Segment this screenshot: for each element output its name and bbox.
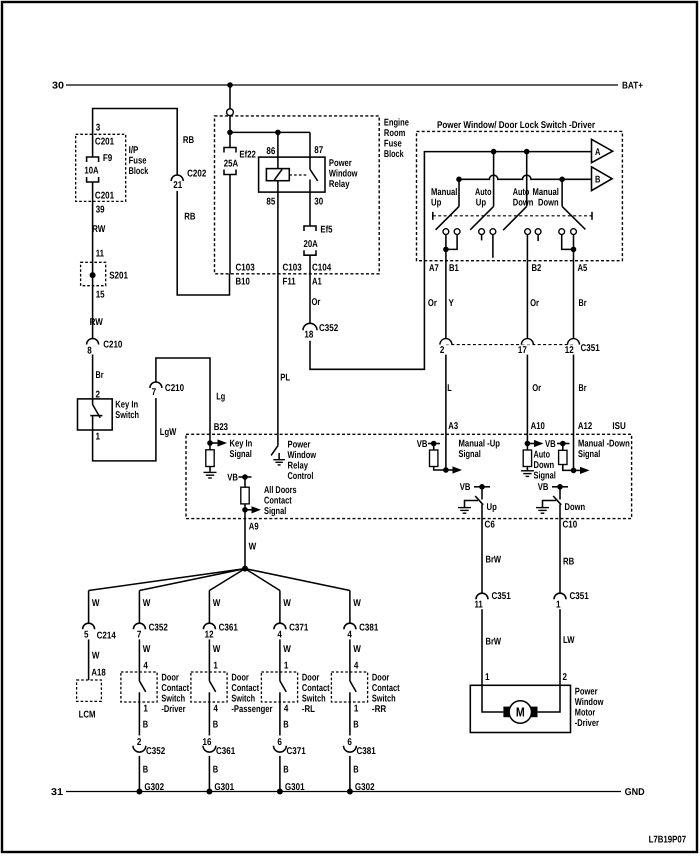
svg-text:2: 2 bbox=[137, 737, 142, 748]
svg-text:Switch: Switch bbox=[115, 410, 139, 421]
svg-text:B10: B10 bbox=[236, 277, 251, 288]
G_BOTBUS bbox=[51, 787, 645, 798]
svg-text:Y: Y bbox=[449, 298, 455, 309]
svg-text:Block: Block bbox=[129, 166, 149, 177]
manual-down signal A12 bbox=[573, 434, 575, 470]
signal arrow bbox=[218, 439, 228, 446]
wire B10 jog to C202 to IP fuse block bbox=[177, 191, 229, 295]
svg-text:Relay: Relay bbox=[288, 461, 309, 472]
svg-text:W: W bbox=[143, 598, 151, 609]
I/P fuse block box bbox=[76, 134, 126, 201]
svg-text:C210: C210 bbox=[103, 340, 123, 351]
node 31 bus bbox=[66, 791, 621, 793]
door contact switch -Driver branch bbox=[121, 591, 190, 795]
svg-text:ISU: ISU bbox=[612, 421, 625, 432]
svg-text:C352: C352 bbox=[149, 623, 169, 634]
svg-text:21: 21 bbox=[173, 180, 182, 191]
svg-text:Br: Br bbox=[96, 370, 104, 381]
svg-text:A3: A3 bbox=[448, 421, 458, 432]
svg-text:1: 1 bbox=[354, 704, 359, 715]
svg-text:W: W bbox=[353, 598, 361, 609]
svg-text:B: B bbox=[353, 765, 358, 776]
svg-text:BAT+: BAT+ bbox=[622, 81, 643, 92]
svg-text:Door: Door bbox=[231, 672, 249, 683]
wire W pin 4 bbox=[349, 639, 351, 681]
svg-text:M: M bbox=[516, 705, 525, 720]
svg-text:LCM: LCM bbox=[79, 710, 96, 721]
G_MIDWIRES bbox=[278, 181, 600, 435]
engine room fuse block box bbox=[215, 116, 380, 274]
svg-text:A1: A1 bbox=[312, 277, 322, 288]
svg-text:B: B bbox=[283, 765, 288, 776]
svg-text:Signal: Signal bbox=[534, 471, 557, 482]
svg-text:A10: A10 bbox=[531, 421, 546, 432]
wire A1 bbox=[309, 255, 311, 274]
ground bbox=[536, 508, 549, 514]
svg-text:B: B bbox=[213, 765, 218, 776]
wire Or to A10 bbox=[526, 355, 528, 435]
svg-text:Up: Up bbox=[431, 197, 441, 208]
G_ENGINE bbox=[215, 116, 410, 288]
svg-text:Fuse: Fuse bbox=[129, 156, 147, 167]
connector C351 pin 12 bbox=[568, 339, 580, 345]
svg-text:Power: Power bbox=[329, 158, 352, 169]
wire W bbox=[138, 591, 140, 624]
G_ISU bbox=[186, 421, 632, 519]
wire B to ground G301 bbox=[208, 756, 210, 792]
svg-text:39: 39 bbox=[96, 205, 105, 216]
branch LCM bbox=[88, 591, 90, 624]
svg-text:Switch: Switch bbox=[372, 693, 396, 704]
wire W bbox=[208, 591, 210, 624]
wire L to A3 bbox=[445, 355, 447, 435]
svg-text:6: 6 bbox=[347, 737, 352, 748]
svg-text:C202: C202 bbox=[187, 169, 207, 180]
svg-text:Br: Br bbox=[579, 298, 587, 309]
junction on bus 31 bbox=[277, 789, 283, 795]
contacts auto up bbox=[479, 229, 485, 235]
svg-text:Power: Power bbox=[575, 686, 598, 697]
svg-text:1: 1 bbox=[284, 661, 289, 672]
svg-text:C103: C103 bbox=[283, 263, 303, 274]
svg-text:C214: C214 bbox=[97, 631, 117, 642]
svg-text:Signal: Signal bbox=[578, 449, 601, 460]
svg-text:Signal: Signal bbox=[230, 449, 253, 460]
svg-text:Contact: Contact bbox=[372, 683, 400, 694]
svg-text:RB: RB bbox=[184, 212, 195, 223]
svg-text:C381: C381 bbox=[357, 746, 377, 757]
wire W bbox=[349, 591, 351, 624]
svg-text:Door: Door bbox=[302, 672, 320, 683]
svg-text:16: 16 bbox=[203, 737, 212, 748]
svg-text:Power Window/ Door Lock Switch: Power Window/ Door Lock Switch -Driver bbox=[437, 120, 595, 131]
svg-text:W: W bbox=[92, 598, 100, 609]
fuse Ef5 20A bbox=[304, 226, 316, 231]
manual-up signal A3 bbox=[445, 434, 447, 470]
fuse Ef22 25A bbox=[229, 132, 231, 147]
svg-text:25A: 25A bbox=[224, 159, 238, 170]
svg-text:VB: VB bbox=[227, 472, 238, 483]
key in signal input bbox=[209, 434, 211, 450]
wire B to ground G302 bbox=[349, 756, 351, 792]
svg-text:7: 7 bbox=[152, 387, 157, 398]
svg-text:17: 17 bbox=[518, 345, 527, 356]
svg-text:Or: Or bbox=[312, 297, 321, 308]
svg-text:Contact: Contact bbox=[302, 683, 330, 694]
wire Br bbox=[92, 355, 94, 399]
svg-text:Lg: Lg bbox=[216, 392, 225, 403]
wire bbox=[229, 116, 231, 133]
svg-text:Contact: Contact bbox=[264, 495, 292, 506]
wire W bbox=[279, 591, 281, 624]
auto down signal A10 bbox=[526, 434, 528, 450]
connector C351 pin 2 bbox=[440, 339, 452, 345]
svg-text:86: 86 bbox=[266, 146, 275, 157]
svg-text:Control: Control bbox=[288, 471, 314, 482]
svg-text:4: 4 bbox=[143, 661, 148, 672]
svg-text:Motor: Motor bbox=[575, 707, 596, 718]
svg-text:Switch: Switch bbox=[161, 693, 185, 704]
svg-text:Down: Down bbox=[565, 502, 586, 513]
ground bbox=[458, 508, 471, 514]
svg-text:C361: C361 bbox=[216, 746, 236, 757]
wire line B with hops bbox=[459, 175, 592, 179]
svg-text:Up: Up bbox=[487, 502, 497, 513]
svg-text:A9: A9 bbox=[249, 522, 259, 533]
svg-text:All Doors: All Doors bbox=[264, 485, 297, 496]
wire B to ground G301 bbox=[279, 756, 281, 792]
svg-text:C352: C352 bbox=[319, 323, 339, 334]
ground bbox=[204, 472, 217, 478]
connector C361 pin 12 bbox=[203, 623, 215, 629]
svg-text:W: W bbox=[353, 644, 361, 655]
svg-text:BrW: BrW bbox=[486, 637, 502, 648]
wire to relay 87 bbox=[230, 131, 310, 133]
svg-text:C104: C104 bbox=[312, 263, 332, 274]
svg-text:VB: VB bbox=[417, 439, 428, 450]
wire RW 2 bbox=[92, 262, 94, 338]
svg-text:C10: C10 bbox=[563, 520, 578, 531]
svg-text:85: 85 bbox=[266, 197, 275, 208]
svg-text:Block: Block bbox=[384, 149, 404, 160]
svg-text:Ef5: Ef5 bbox=[320, 225, 333, 236]
svg-text:B1: B1 bbox=[449, 263, 459, 274]
svg-text:Door: Door bbox=[372, 672, 390, 683]
svg-text:Down: Down bbox=[538, 197, 559, 208]
relay coil bbox=[277, 132, 279, 168]
connector C352 pin 7 bbox=[133, 623, 145, 629]
svg-text:C351: C351 bbox=[570, 591, 590, 602]
connector C351 pin 11 bbox=[476, 593, 488, 599]
svg-text:C351: C351 bbox=[581, 343, 601, 354]
wire A9 W bbox=[244, 519, 246, 569]
wire RB above C202 bbox=[93, 109, 178, 176]
contacts manual down bbox=[559, 229, 565, 235]
svg-text:1: 1 bbox=[213, 661, 218, 672]
wire B2 Or bbox=[526, 261, 528, 339]
junction on bus 31 bbox=[347, 789, 353, 795]
svg-text:Window: Window bbox=[575, 697, 604, 708]
svg-text:RW: RW bbox=[90, 317, 104, 328]
ground bbox=[521, 471, 534, 477]
svg-text:-RR: -RR bbox=[372, 704, 386, 715]
svg-text:RW: RW bbox=[92, 224, 106, 235]
svg-text:A7: A7 bbox=[429, 263, 439, 274]
svg-text:VB: VB bbox=[460, 482, 471, 493]
svg-text:W: W bbox=[92, 651, 100, 662]
svg-text:C352: C352 bbox=[146, 746, 166, 757]
connector C202 pin 21 bbox=[171, 175, 183, 181]
svg-text:LW: LW bbox=[563, 635, 575, 646]
wire 30 to Ef5 bbox=[309, 192, 311, 226]
triangle A bbox=[592, 139, 613, 162]
wire A1 Or to C352-18 bbox=[309, 274, 311, 323]
svg-text:Contact: Contact bbox=[231, 683, 259, 694]
svg-text:C6: C6 bbox=[485, 520, 496, 531]
svg-text:W: W bbox=[283, 644, 291, 655]
node 30 bus bbox=[66, 84, 618, 86]
switch manual up bbox=[458, 179, 460, 206]
svg-text:Switch: Switch bbox=[231, 693, 255, 704]
ISU box bbox=[186, 434, 632, 518]
svg-text:11: 11 bbox=[96, 249, 105, 260]
svg-text:Ef22: Ef22 bbox=[239, 150, 256, 161]
motor M1 internals bbox=[482, 685, 503, 712]
G_TOPBUS bbox=[52, 81, 643, 133]
svg-text:30: 30 bbox=[52, 81, 65, 92]
door contact switch box -Passenger bbox=[191, 672, 227, 702]
svg-text:4: 4 bbox=[347, 630, 352, 641]
svg-text:VB: VB bbox=[545, 439, 556, 450]
LCM box bbox=[77, 680, 102, 701]
relay contact blade bbox=[309, 157, 311, 169]
G_MOTOR bbox=[470, 519, 603, 733]
power window motor box bbox=[470, 685, 570, 732]
svg-text:L7B19P07: L7B19P07 bbox=[649, 835, 687, 846]
svg-text:Switch: Switch bbox=[302, 693, 326, 704]
resistor R-a12 bbox=[559, 450, 567, 464]
svg-text:W: W bbox=[143, 644, 151, 655]
wire B1 Y bbox=[445, 261, 447, 339]
svg-text:31: 31 bbox=[51, 787, 64, 798]
svg-text:Door: Door bbox=[161, 672, 179, 683]
door contact switch -Passenger branch bbox=[191, 591, 273, 795]
G_SWITCHBOX bbox=[417, 120, 623, 274]
svg-text:C103: C103 bbox=[236, 263, 256, 274]
svg-text:GND: GND bbox=[625, 787, 645, 798]
wire B to ground G302 bbox=[138, 756, 140, 792]
svg-text:B: B bbox=[353, 720, 358, 731]
svg-text:Key In: Key In bbox=[230, 439, 253, 450]
svg-text:2: 2 bbox=[563, 672, 568, 683]
wire Or to A7 bbox=[310, 261, 424, 370]
door contact switch -RR branch bbox=[331, 591, 400, 795]
svg-text:B: B bbox=[143, 765, 148, 776]
svg-text:C371: C371 bbox=[287, 746, 307, 757]
svg-text:B: B bbox=[213, 720, 218, 731]
power window relay control switch bbox=[277, 434, 279, 445]
svg-text:6: 6 bbox=[277, 737, 282, 748]
svg-text:7: 7 bbox=[137, 630, 142, 641]
contacts auto down bbox=[525, 229, 531, 235]
connector C371 pin 4 bbox=[274, 623, 286, 629]
svg-text:4: 4 bbox=[284, 704, 289, 715]
svg-text:4: 4 bbox=[213, 704, 218, 715]
svg-text:W: W bbox=[213, 644, 221, 655]
svg-text:Or: Or bbox=[532, 383, 541, 394]
up driver blade bbox=[475, 496, 483, 505]
svg-text:8: 8 bbox=[87, 345, 92, 356]
svg-text:11: 11 bbox=[475, 600, 484, 611]
svg-text:RB: RB bbox=[183, 135, 194, 146]
wire C10 RB bbox=[559, 519, 561, 594]
wire key switch to C210-7 bbox=[93, 398, 156, 461]
resistor R-alldoors bbox=[241, 487, 249, 504]
svg-text:RB: RB bbox=[563, 557, 574, 568]
svg-text:4: 4 bbox=[354, 661, 359, 672]
svg-text:Fuse: Fuse bbox=[384, 138, 402, 149]
G_IPBLOCK bbox=[76, 109, 230, 461]
svg-text:4: 4 bbox=[277, 630, 282, 641]
svg-text:87: 87 bbox=[314, 145, 323, 156]
svg-text:S201: S201 bbox=[109, 271, 128, 282]
mech link dashed line bbox=[433, 215, 592, 217]
connector C210 pin 7 bbox=[150, 382, 162, 388]
door contact switch -RL branch bbox=[261, 591, 330, 795]
connector C210 pin 8 bbox=[87, 339, 99, 345]
svg-text:3: 3 bbox=[96, 123, 101, 134]
connector C351 pin 1 bbox=[554, 593, 566, 599]
fuse F9 10A bbox=[87, 157, 99, 162]
svg-text:Relay: Relay bbox=[329, 179, 350, 190]
svg-text:I/P: I/P bbox=[129, 145, 139, 156]
junction on bus 31 bbox=[206, 789, 212, 795]
svg-text:B23: B23 bbox=[214, 422, 229, 433]
door contact switch box -RR bbox=[331, 672, 367, 702]
svg-text:-Passenger: -Passenger bbox=[231, 704, 272, 715]
wire A5 Br bbox=[573, 261, 575, 339]
contacts manual up bbox=[443, 229, 449, 235]
svg-text:1: 1 bbox=[556, 600, 561, 611]
svg-text:1: 1 bbox=[143, 704, 148, 715]
svg-text:C201: C201 bbox=[95, 137, 115, 148]
connector circle into engine fuse block bbox=[227, 109, 234, 116]
svg-text:10A: 10A bbox=[84, 165, 98, 176]
svg-text:Key In: Key In bbox=[115, 400, 138, 411]
svg-text:C361: C361 bbox=[219, 623, 239, 634]
switch auto up bbox=[493, 152, 495, 207]
svg-text:Power: Power bbox=[288, 440, 311, 451]
svg-text:20A: 20A bbox=[304, 239, 318, 250]
fan wires bbox=[89, 569, 245, 591]
door contact switch box -RL bbox=[261, 672, 297, 702]
svg-text:Manual -Up: Manual -Up bbox=[459, 439, 501, 450]
connector C352 pin 18 bbox=[303, 323, 317, 330]
svg-text:A5: A5 bbox=[578, 263, 588, 274]
ground bbox=[273, 460, 285, 465]
svg-text:Contact: Contact bbox=[161, 683, 189, 694]
svg-text:B: B bbox=[143, 720, 148, 731]
svg-text:5: 5 bbox=[84, 630, 89, 641]
svg-text:A18: A18 bbox=[91, 668, 106, 679]
G_DOORS bbox=[77, 519, 350, 721]
svg-text:VB: VB bbox=[538, 482, 549, 493]
svg-text:Down: Down bbox=[534, 460, 555, 471]
svg-text:Auto: Auto bbox=[534, 450, 551, 461]
svg-text:-RL: -RL bbox=[302, 704, 315, 715]
svg-text:B2: B2 bbox=[532, 263, 542, 274]
wire line A bbox=[424, 152, 591, 261]
down driver blade bbox=[553, 496, 561, 505]
switch manual down bbox=[561, 179, 563, 206]
wire Lg to B23 bbox=[156, 358, 210, 434]
wire Br to A12 bbox=[573, 355, 575, 435]
svg-text:12: 12 bbox=[205, 630, 214, 641]
svg-text:Signal: Signal bbox=[264, 506, 287, 517]
key in switch U-KEY bbox=[78, 399, 113, 430]
resistor R-keyin bbox=[206, 450, 214, 467]
svg-text:B: B bbox=[283, 720, 288, 731]
wire RW bbox=[92, 182, 94, 262]
junction on bus 30 bbox=[227, 82, 233, 88]
wire Ef22 to B10 bbox=[229, 175, 231, 275]
svg-text:C201: C201 bbox=[95, 191, 115, 202]
resistor R-a10 bbox=[523, 450, 531, 467]
svg-text:W: W bbox=[283, 598, 291, 609]
svg-text:C210: C210 bbox=[165, 383, 185, 394]
svg-text:-Driver: -Driver bbox=[161, 704, 185, 715]
svg-text:30: 30 bbox=[314, 197, 323, 208]
resistor R-a3 bbox=[430, 450, 438, 467]
svg-text:Manual -Down: Manual -Down bbox=[578, 439, 630, 450]
svg-text:1: 1 bbox=[485, 672, 490, 683]
svg-text:Signal: Signal bbox=[459, 449, 482, 460]
svg-text:2: 2 bbox=[440, 345, 445, 356]
svg-text:W: W bbox=[213, 598, 221, 609]
svg-text:F9: F9 bbox=[103, 153, 113, 164]
door contact switch box -Driver bbox=[121, 672, 157, 702]
switch auto down bbox=[526, 152, 528, 207]
svg-text:BrW: BrW bbox=[486, 555, 502, 566]
wire bus30 to fuse block bbox=[229, 85, 231, 109]
wire W pin 1 bbox=[208, 639, 210, 681]
svg-text:B: B bbox=[595, 175, 600, 186]
svg-text:W: W bbox=[249, 542, 257, 553]
svg-text:L: L bbox=[447, 383, 452, 394]
node A9 splice bbox=[242, 566, 248, 572]
svg-text:18: 18 bbox=[304, 329, 313, 340]
connector C351 dashed row bbox=[446, 344, 574, 346]
triangle B bbox=[592, 167, 613, 191]
svg-text:Window: Window bbox=[288, 450, 317, 461]
junction on bus 31 bbox=[136, 789, 142, 795]
svg-text:1: 1 bbox=[96, 431, 101, 442]
svg-text:Engine: Engine bbox=[384, 117, 409, 128]
svg-text:LgW: LgW bbox=[160, 427, 177, 438]
svg-text:F11: F11 bbox=[283, 277, 297, 288]
svg-text:Br: Br bbox=[579, 383, 587, 394]
svg-text:Or: Or bbox=[530, 298, 539, 309]
wire W pin 1 bbox=[279, 639, 281, 681]
svg-text:PL: PL bbox=[280, 373, 290, 384]
svg-text:Window: Window bbox=[329, 169, 358, 180]
svg-text:C371: C371 bbox=[289, 623, 309, 634]
connector C351 pin 17 bbox=[521, 339, 533, 345]
relay U1 box bbox=[259, 157, 325, 192]
svg-text:12: 12 bbox=[565, 345, 574, 356]
svg-text:A12: A12 bbox=[578, 421, 593, 432]
svg-text:C351: C351 bbox=[492, 591, 512, 602]
